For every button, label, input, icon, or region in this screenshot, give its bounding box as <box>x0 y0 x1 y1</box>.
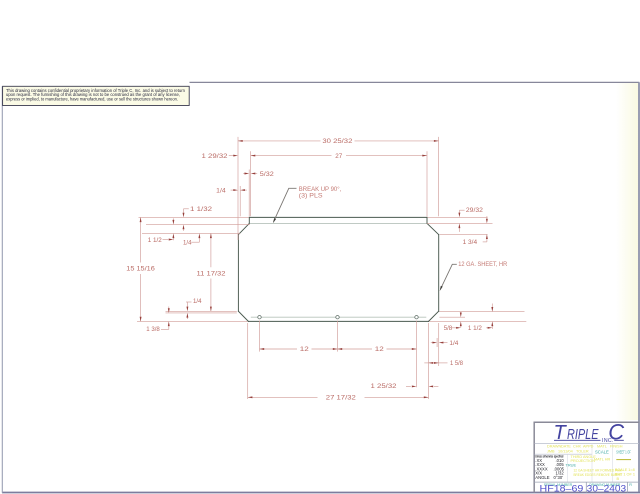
svg-text:FINISH: FINISH <box>610 445 623 449</box>
title block border top <box>534 421 640 423</box>
arrow 1 29/32 <box>233 155 238 157</box>
svg-text:SCALE 1=8: SCALE 1=8 <box>615 468 635 472</box>
svg-text:1 29/32: 1 29/32 <box>202 153 229 160</box>
svg-text:MATL HR: MATL HR <box>594 457 611 461</box>
svg-text:1 1/2: 1 1/2 <box>148 237 163 244</box>
svg-text:1 5/8: 1 5/8 <box>450 360 464 367</box>
svg-text:1/4: 1/4 <box>216 187 226 194</box>
svg-text:11 17/32: 11 17/32 <box>197 270 227 277</box>
part bottom edge <box>248 320 428 322</box>
teal small labels <box>566 449 632 467</box>
tolerance text block <box>535 455 564 481</box>
leader for BREAK UP note <box>274 188 297 221</box>
1/4 top leader <box>231 189 234 191</box>
left ext B y=224.6 <box>146 224 250 226</box>
arrows 1 25/32 <box>412 385 417 387</box>
right ext y=217.3 <box>428 216 488 218</box>
dim line 30 25/32 <box>238 140 321 142</box>
ext line x=250.4 (bend start) <box>250 151 252 216</box>
svg-text:DRAWN: DRAWN <box>547 445 561 449</box>
part top-right chamfer <box>427 223 439 234</box>
5/32 stems <box>243 173 245 175</box>
svg-text:1/4: 1/4 <box>183 239 192 246</box>
ext x=428.5 bottom <box>428 323 430 399</box>
bottom bend line <box>251 316 426 318</box>
arrows 1 3/8 <box>168 308 170 313</box>
1 25/32 leaders <box>406 385 411 387</box>
svg-text:30–2403: 30–2403 <box>587 484 627 494</box>
1/4 bottom-left leader/stems <box>186 301 192 303</box>
arrows 27 17/32 <box>248 396 253 398</box>
ext line x=238 (left edge) <box>237 137 239 240</box>
arrows 30 25/32 <box>238 140 243 142</box>
1 5/8 dim <box>424 362 438 364</box>
left ext C y=233.4 <box>142 232 240 234</box>
right-bottom ext y=311.7 <box>439 311 524 313</box>
svg-text:12: 12 <box>300 346 310 353</box>
svg-text:1 3/8: 1 3/8 <box>146 326 160 333</box>
1/4 mid leader/stem <box>191 241 199 243</box>
arrows 1 1/2 left <box>172 220 174 225</box>
part top-left step <box>248 217 250 223</box>
arrows 1/4 top <box>233 189 238 191</box>
left ext A y=217.4 <box>139 216 249 218</box>
svg-text:27: 27 <box>335 153 343 160</box>
svg-text:5/8: 5/8 <box>444 325 453 332</box>
right ext y=234.3 <box>440 233 488 235</box>
svg-text:29/32: 29/32 <box>466 207 484 214</box>
bottom-left ext y=311.3 <box>166 310 237 312</box>
11 17/32 dim line <box>210 233 212 267</box>
svg-text:1 1/32: 1 1/32 <box>190 206 213 213</box>
1 29/32 leader <box>229 155 234 157</box>
faint yellow scan tinge near right border <box>616 83 639 420</box>
1 3/8 leader/stems <box>161 328 169 330</box>
arrows 1 5/8 <box>429 362 434 364</box>
yellow mid-block text <box>571 455 635 481</box>
bottom-left ext y=321.4 <box>137 320 248 322</box>
15 15/16 dim line <box>140 217 142 262</box>
hole 1 <box>258 316 261 319</box>
proprietary note box <box>3 86 190 105</box>
title block hline above numbers <box>534 481 639 483</box>
svg-text:DATE: DATE <box>561 445 571 449</box>
ext line x=240.2 (1/4 top) <box>239 186 241 216</box>
svg-text:R: R <box>629 483 632 487</box>
svg-text:1 25/32: 1 25/32 <box>371 383 398 390</box>
1/4 right stems <box>431 342 433 344</box>
arrows 1 3/4 <box>486 219 488 224</box>
arrows 5/32 <box>245 173 250 175</box>
right-bottom ext y=317.2 <box>439 316 465 318</box>
title block vline tolerances <box>566 454 568 482</box>
arrows 1 1/2 right <box>491 307 493 312</box>
right ext y=223.4 <box>427 222 493 224</box>
dim 12 first <box>260 348 298 350</box>
logo underline 2 <box>614 439 624 441</box>
svg-text:INC.: INC. <box>602 438 614 444</box>
svg-text:1 3/4: 1 3/4 <box>463 239 478 246</box>
svg-text:1/4: 1/4 <box>193 298 202 305</box>
svg-text:27 17/32: 27 17/32 <box>326 395 357 402</box>
svg-text:(3) PLS: (3) PLS <box>299 193 323 200</box>
teal column labels <box>544 483 633 487</box>
logo underline 1 <box>554 439 601 441</box>
svg-text:ANGLE: ANGLE <box>535 475 549 480</box>
svg-text:30 25/32: 30 25/32 <box>322 138 353 145</box>
title block line below logo <box>535 443 640 445</box>
sheet border top <box>190 81 640 83</box>
arrows 5/8 <box>460 313 462 318</box>
ext line x=438.6 (right edge) <box>438 137 440 216</box>
yellow field labels row1 <box>547 445 623 454</box>
title block vline scale col <box>591 444 593 483</box>
1 1/2 left stems <box>163 239 169 241</box>
part top edge <box>249 216 427 218</box>
hole 3 <box>415 316 418 319</box>
arrows 15 15/16 <box>140 217 142 222</box>
svg-text:CHK: CHK <box>573 445 581 449</box>
5/8 stems <box>460 312 462 313</box>
part bottom-left chamfer <box>238 311 248 321</box>
svg-text:MATL: MATL <box>597 445 607 449</box>
29/32 stems <box>458 210 460 213</box>
sheet border left <box>1 86 3 493</box>
arrows 27 <box>251 155 256 157</box>
dim 27 17/32 <box>248 396 318 398</box>
ext line x=427 (top edge end) <box>426 151 428 216</box>
svg-text:HF18–69: HF18–69 <box>540 484 584 494</box>
title block border left <box>533 422 535 493</box>
title block vline between numbers <box>585 482 587 493</box>
svg-text:APPD: APPD <box>583 445 594 449</box>
svg-text:TRUE: TRUE <box>566 462 577 467</box>
svg-text:12: 12 <box>375 346 385 353</box>
PART OUTLINE <box>238 217 438 321</box>
right-bottom ext y=321.4 <box>429 320 526 322</box>
svg-text:express or implied, to manufac: express or implied, to manufacture, have… <box>6 97 178 102</box>
svg-text:SCALE: SCALE <box>595 449 609 454</box>
svg-text:1/4: 1/4 <box>449 340 459 347</box>
1 1/32 tick and stems <box>184 208 189 210</box>
sheet border right <box>638 82 640 492</box>
top bend line <box>250 222 427 224</box>
logo TRIPLE C <box>554 420 625 445</box>
part left edge <box>237 235 239 312</box>
part right edge <box>438 235 440 312</box>
svg-text:0°30': 0°30' <box>554 475 564 480</box>
ext x=247.7 bottom <box>247 323 249 399</box>
yellow underline right <box>616 459 631 461</box>
arrows 1/4 right <box>432 342 437 344</box>
title block vline sheet col <box>612 444 614 483</box>
leader for 12 GA note <box>440 264 456 289</box>
dim line 27 <box>251 155 332 157</box>
dim 12 second <box>338 348 373 350</box>
arrows 12 second <box>338 348 343 350</box>
arrows 1 1/32 <box>183 213 185 218</box>
arrow 1/4 mid <box>198 233 200 238</box>
svg-text:SHEET 1 OF: SHEET 1 OF <box>616 449 631 454</box>
svg-text:10/13/04: 10/13/04 <box>558 450 573 454</box>
arrows 1/4 bottom-left <box>186 307 188 312</box>
svg-text:5/32: 5/32 <box>260 171 275 178</box>
ext line x=249.3 (top edge start) <box>248 170 250 217</box>
svg-text:JMB: JMB <box>547 450 555 454</box>
arrows 12 first <box>260 348 265 350</box>
hole ext lines <box>259 321 261 352</box>
title block line above tolerances <box>535 453 593 455</box>
svg-text:12 GA. SHEET, HR: 12 GA. SHEET, HR <box>458 261 507 268</box>
title block vline before R <box>626 482 628 493</box>
1 3/4 stems <box>486 216 488 219</box>
svg-text:15 15/16: 15 15/16 <box>126 266 155 273</box>
arrows 11 17/32 <box>210 233 212 238</box>
part bottom-right chamfer <box>429 311 439 321</box>
svg-text:SHT 1 OF 1: SHT 1 OF 1 <box>615 473 635 477</box>
svg-text:TOLER: TOLER <box>576 450 589 454</box>
part top-left chamfer <box>238 223 249 234</box>
hole 2 <box>336 316 339 319</box>
1 1/2 right stems <box>491 304 493 308</box>
bottom-left ext y=312.9 <box>166 312 237 314</box>
arrows 29/32 <box>458 213 460 218</box>
svg-text:1 1/2: 1 1/2 <box>468 325 483 332</box>
sheet border bottom <box>2 492 640 494</box>
part top-right step <box>426 217 428 223</box>
